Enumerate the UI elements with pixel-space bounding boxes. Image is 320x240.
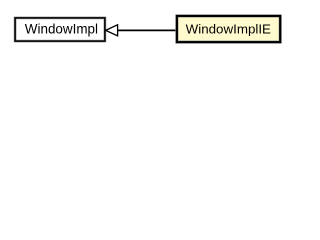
class box WindowImpl <box>15 18 105 41</box>
svg-text:WindowImplIE: WindowImplIE <box>186 21 271 36</box>
generalization arrowhead <box>106 25 118 36</box>
class box WindowImplIE (highlighted) <box>177 16 280 42</box>
wire <box>118 29 177 31</box>
svg-text:WindowImpl: WindowImpl <box>25 21 98 36</box>
